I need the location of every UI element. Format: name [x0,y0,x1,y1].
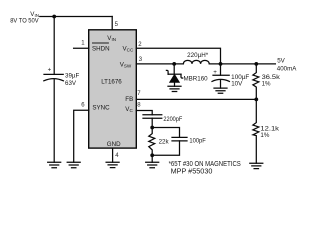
capacitor C1 39uF top plate [44,73,63,75]
svg-text:LT1676: LT1676 [101,78,122,85]
ground pin4 [106,162,119,167]
inductor L1 bumps [183,60,209,64]
wire 100pF branch bottom [152,141,179,155]
junction dot output divider node [254,62,258,66]
wire FB pin 7 to divider [136,98,256,100]
junction dot comp top node [150,126,154,130]
ground C1 [48,162,61,167]
wire 100pF branch top [152,128,179,138]
svg-text:MBR160: MBR160 [184,75,209,82]
wire C2 to ground [220,81,222,89]
diode D1 schottky cathode bar [168,73,181,75]
wire SYNC pin 6 to ground [74,110,89,162]
svg-text:FB: FB [125,96,133,103]
svg-text:400mA: 400mA [277,66,297,73]
diode D1 MBR160 wire from node [173,64,175,74]
wire node A down to C1 [53,17,55,75]
svg-text:VCC: VCC [123,46,134,53]
pin 1 stub SHDN [74,47,89,49]
svg-text:VSW: VSW [120,62,132,69]
wire C3 to comp node [151,118,153,127]
svg-text:63V: 63V [65,80,77,87]
ground C2 [214,88,227,93]
svg-text:GND: GND [107,141,121,148]
node A junction dot [52,15,56,19]
svg-text:220µH*: 220µH* [187,52,209,59]
junction dot comp bottom node [150,153,154,157]
svg-text:+: + [48,67,52,74]
wire VIN input to top rail [40,16,112,18]
wire pin 2 VCC to output node [136,48,220,64]
diode D1 schottky left hook [166,70,168,74]
svg-text:100pF: 100pF [189,138,206,145]
svg-text:SHDN: SHDN [92,46,110,53]
svg-text:10V: 10V [231,81,243,88]
ground R2 [250,163,263,168]
capacitor C1 39uF bottom curved plate [44,79,64,81]
junction dot FB node [254,98,258,102]
svg-text:2200pF: 2200pF [163,116,182,123]
svg-text:8V TO 50V: 8V TO 50V [10,18,39,25]
wire GND pin 4 [112,148,114,162]
svg-text:+: + [213,69,217,76]
svg-text:39µF: 39µF [65,72,79,79]
ground D1 [168,86,181,91]
svg-text:*65T #30 ON MAGNETICS: *65T #30 ON MAGNETICS [169,161,241,168]
wire VC pin 8 to comp network [136,111,152,115]
junction dot diode node [172,62,176,66]
junction dot VCC/C2 node [219,62,223,66]
wire pin 3 VSW to diode node [136,63,183,65]
svg-text:22k: 22k [159,139,170,146]
svg-text:SYNC: SYNC [92,105,110,112]
capacitor C2 bottom curved plate [212,79,229,81]
wire diode to ground [174,82,176,86]
capacitor C3 2200pF plates [143,115,162,118]
diode D1 schottky right hook [181,74,183,78]
wire comp bottom to ground [151,155,153,162]
ground comp [146,162,159,167]
capacitor C2 100uF wire [220,64,222,75]
diode D1 triangle [170,74,180,82]
resistor R3 22k [149,128,155,156]
op-amp U1 LT1676 IC body [89,30,137,148]
ground SYNC [67,162,80,167]
svg-text:1%: 1% [260,132,269,139]
svg-text:VIN: VIN [107,35,116,42]
wire C1 to ground [53,80,55,163]
resistor R1 36.5k [253,64,259,100]
capacitor C4 100pF plates [172,137,187,141]
svg-text:1%: 1% [262,80,271,87]
resistor R2 12.1k [253,99,259,163]
capacitor C2 top plate [213,74,229,76]
svg-text:VC: VC [125,106,133,113]
wire top rail down to pin 5 [111,17,113,30]
wire inductor to output rail [209,63,275,65]
svg-text:MPP #55030: MPP #55030 [171,168,213,175]
svg-text:5V: 5V [277,57,285,64]
